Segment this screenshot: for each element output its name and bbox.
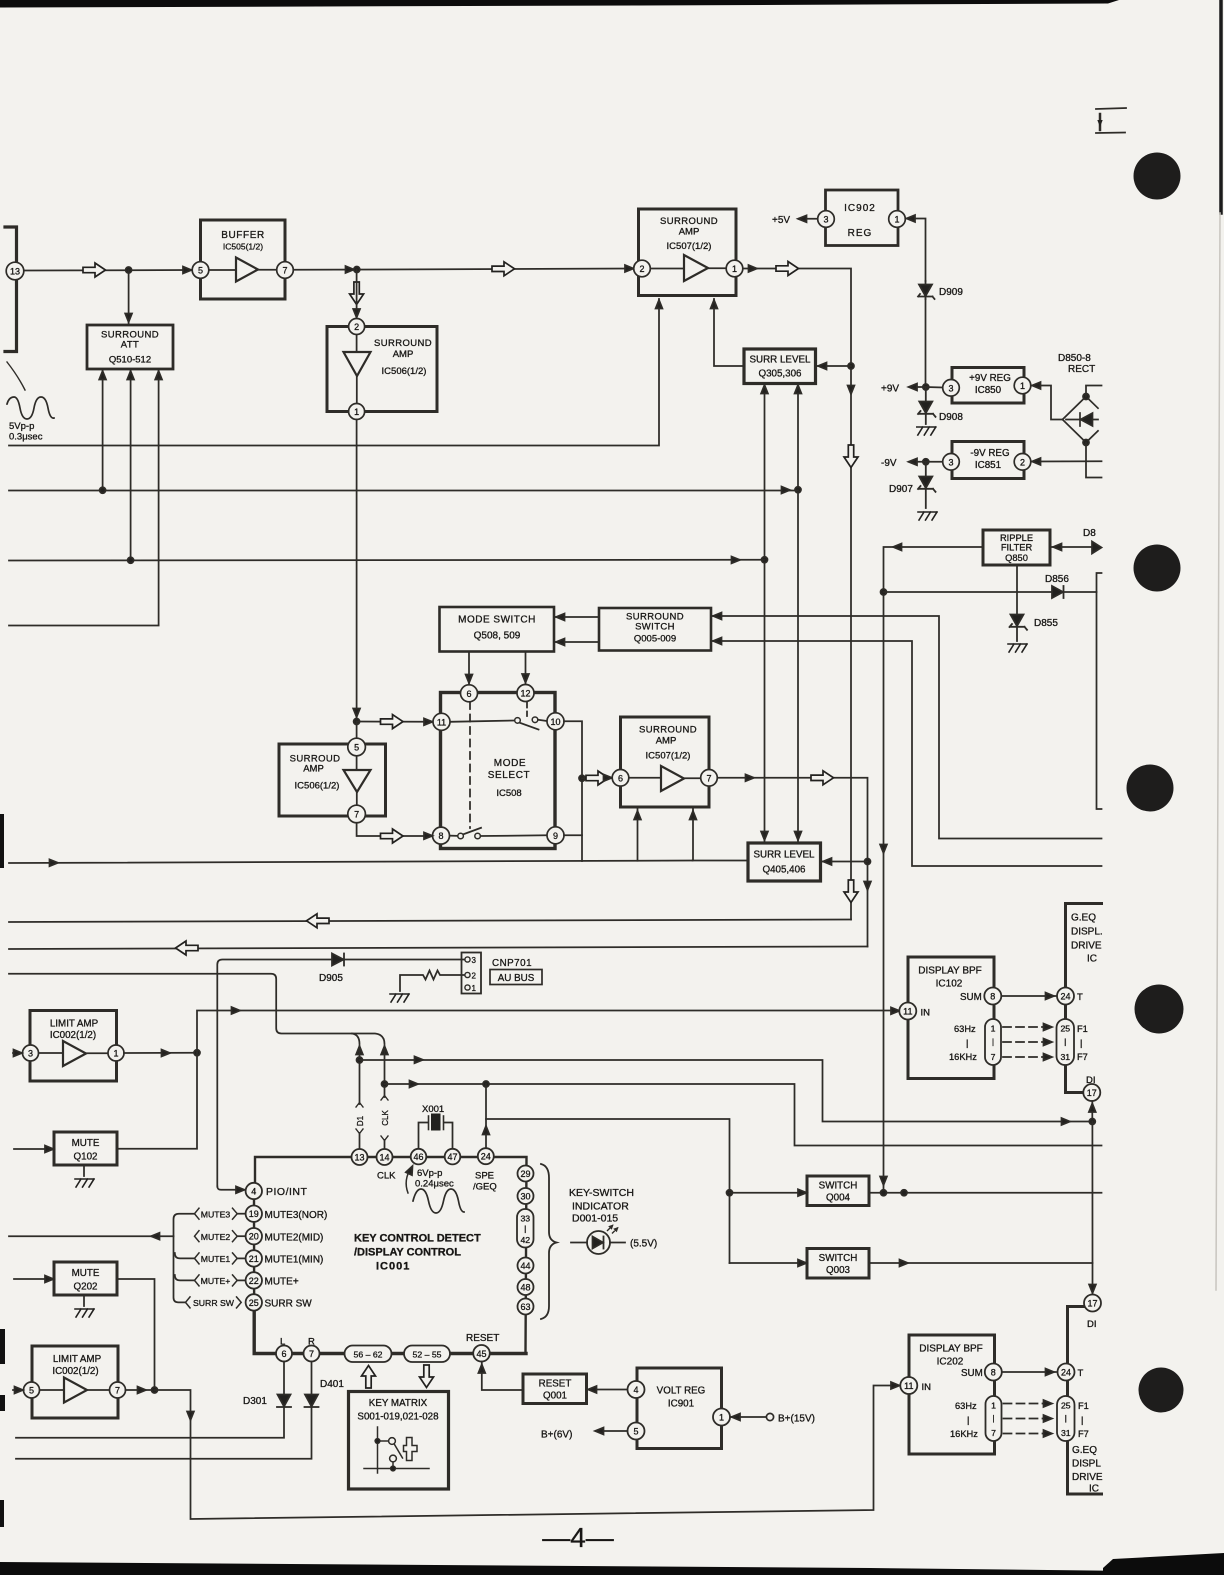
svg-text:(5.5V): (5.5V) — [630, 1239, 657, 1250]
svg-text:1: 1 — [732, 264, 737, 274]
wire: surround switch to mode switch upper — [555, 616, 599, 618]
svg-text:MUTE: MUTE — [72, 1268, 100, 1279]
reset Q001 box — [523, 1374, 587, 1404]
pin 29 — [518, 1166, 534, 1182]
ground below mute Q202 — [83, 1295, 85, 1306]
wire: IC851 pin2 from rectifier — [1031, 460, 1102, 462]
svg-text:Q850: Q850 — [1005, 553, 1028, 563]
angle label SURR SW — [186, 1297, 242, 1308]
svg-text:/DISPLAY CONTROL: /DISPLAY CONTROL — [354, 1247, 461, 1259]
svg-text:2: 2 — [354, 322, 359, 332]
svg-text:8: 8 — [438, 831, 443, 841]
wire: junction down into SURROUND ATT — [128, 270, 130, 323]
wire: input arrow to pin5 — [13, 1389, 23, 1391]
G.EQ display drive IC box 2 (cut at page edge) — [1068, 1307, 1102, 1495]
surr level box Q405,406 — [748, 843, 821, 881]
svg-text:5: 5 — [29, 1386, 34, 1396]
svg-text:D855: D855 — [1034, 618, 1058, 629]
pin 3 of IC850 — [943, 380, 960, 397]
svg-text:11: 11 — [437, 717, 446, 727]
wire: y1119 feed to switches — [486, 1119, 730, 1263]
svg-text:42: 42 — [520, 1235, 530, 1245]
pin 7 of buffer — [277, 262, 294, 279]
svg-text:24: 24 — [1061, 1368, 1071, 1378]
svg-text:SUM: SUM — [961, 1368, 983, 1379]
pin 1 of IC902 — [889, 211, 906, 228]
display BPF IC102 box — [908, 957, 994, 1079]
svg-text:Q405,406: Q405,406 — [762, 865, 806, 876]
ground on CNP pin2 — [390, 994, 409, 1002]
wire: IC507 right bottom pin down to SURR LEVEL input — [714, 299, 742, 366]
svg-text:FILTER: FILTER — [1001, 543, 1033, 553]
svg-text:0.3μsec: 0.3μsec — [9, 432, 43, 443]
svg-text:+5V: +5V — [772, 215, 790, 226]
svg-text:RIPPLE: RIPPLE — [1000, 533, 1033, 543]
dashed band wires 2 — [1004, 1404, 1046, 1434]
pin 63 — [518, 1299, 534, 1315]
svg-text:20: 20 — [249, 1232, 259, 1242]
svg-text:IC002(1/2): IC002(1/2) — [52, 1366, 98, 1377]
wire: surr level right input from x851 — [817, 365, 851, 367]
pin 22 MUTE+ — [246, 1272, 262, 1288]
svg-text:MUTE1: MUTE1 — [201, 1254, 231, 1264]
svg-text:17: 17 — [1087, 1088, 1097, 1098]
wire: IC850 pin1 to bridge — [1031, 386, 1063, 420]
rotated label (CLK) — [381, 1096, 388, 1141]
svg-text:+9V REG: +9V REG — [969, 373, 1011, 384]
wire: x729 node to Q004 — [730, 1192, 807, 1194]
pin 6 of mode select — [461, 685, 478, 702]
G.EQ display drive IC box 1 (cut at page edge) — [1066, 904, 1102, 1093]
wire: x582 node to IC507 lower pin6 — [582, 777, 612, 780]
angle label MUTE3 — [195, 1208, 238, 1219]
svg-text:—4—: —4— — [542, 1522, 614, 1553]
binder hole 1 — [1134, 153, 1181, 200]
svg-text:REG: REG — [848, 228, 873, 239]
svg-text:3: 3 — [948, 457, 953, 467]
svg-text:Q003: Q003 — [826, 1265, 851, 1276]
angle label MUTE2 — [195, 1231, 238, 1242]
svg-text:MUTE2: MUTE2 — [201, 1232, 231, 1242]
wire: mute Q202 right to x154.5 down to limit amp 2 node — [118, 1279, 155, 1390]
svg-text:SURROUND: SURROUND — [374, 338, 432, 349]
svg-text:IC507(1/2): IC507(1/2) — [667, 241, 712, 252]
bridge rectifier D850-853 — [1063, 397, 1099, 443]
svg-text:|: | — [1064, 1037, 1066, 1047]
pins 25-31 stadium of G.EQ 2 — [1057, 1396, 1075, 1441]
pin 1 of limit amp 1 — [108, 1045, 124, 1061]
svg-text:63: 63 — [520, 1302, 530, 1312]
svg-text:F1: F1 — [1078, 1401, 1089, 1411]
svg-text:DRIVE: DRIVE — [1071, 941, 1102, 952]
top right registration marker — [1096, 108, 1126, 133]
svg-text:D001-015: D001-015 — [572, 1213, 618, 1225]
wire: volt reg pin4 to reset Q001 — [587, 1389, 627, 1391]
svg-text:7: 7 — [991, 1428, 996, 1438]
pin 5 of surroud amp — [348, 738, 366, 756]
svg-text:IC002(1/2): IC002(1/2) — [50, 1030, 96, 1041]
pin 10 of mode select — [547, 713, 564, 730]
svg-text:INDICATOR: INDICATOR — [572, 1201, 629, 1213]
wire: ripple filter right to D8 stub — [1050, 546, 1092, 548]
pins 56-62 stadium — [345, 1346, 392, 1363]
svg-text:IC901: IC901 — [668, 1399, 694, 1410]
mute bundle bus — [174, 1214, 195, 1303]
pin 2 of IC851 — [1014, 454, 1031, 471]
-9V node — [923, 459, 929, 465]
ground below D855 — [1008, 644, 1027, 652]
diode D905 — [332, 954, 464, 966]
svg-text:T: T — [1078, 1368, 1084, 1379]
svg-text:1: 1 — [894, 215, 899, 225]
wire: D301 down then left to edge — [16, 1407, 284, 1438]
wire: x217 corner into pin 4 — [217, 1187, 244, 1190]
pin 19 MUTE3 — [246, 1206, 262, 1222]
pin 8 SUM of IC202 — [985, 1364, 1002, 1381]
junction on x851 at surr level — [848, 363, 854, 369]
wire: mute Q102 input from left edge — [14, 1148, 53, 1150]
pin 3 of limit amp 1 — [23, 1045, 39, 1061]
resistor on CNP pin2 — [400, 971, 465, 992]
switch Q003 box — [807, 1249, 869, 1279]
svg-text:16KHz: 16KHz — [950, 1429, 978, 1439]
diode D856 — [884, 586, 1097, 598]
svg-text:3: 3 — [823, 215, 828, 225]
+9V REG IC850 box — [952, 368, 1024, 404]
svg-text:D1: D1 — [356, 1115, 365, 1126]
svg-text:F7: F7 — [1078, 1429, 1089, 1439]
svg-text:48: 48 — [520, 1283, 530, 1293]
svg-text:Q004: Q004 — [826, 1193, 851, 1204]
wire: ATT pin3 up-arrow from y625 corner — [158, 370, 160, 625]
svg-text:IC: IC — [1087, 954, 1097, 965]
pin 7 of IC507 lower — [701, 770, 718, 787]
pin 25 SURR SW — [246, 1294, 262, 1310]
svg-text:IC506(1/2): IC506(1/2) — [382, 366, 427, 377]
pin 1 of IC506 upper — [349, 404, 365, 420]
svg-text:ATT: ATT — [121, 340, 139, 351]
wire: limit amp 1 out to junction — [124, 1052, 197, 1054]
svg-text:25: 25 — [1061, 1401, 1071, 1411]
hollow arrow down from 52-55 — [420, 1365, 434, 1388]
pins 52-55 stadium — [404, 1346, 450, 1363]
svg-text:10: 10 — [550, 717, 560, 727]
svg-text:IN: IN — [921, 1008, 931, 1019]
IC506 upper triangle (down) — [344, 352, 371, 376]
left edge black marks — [0, 814, 4, 868]
angle label MUTE1 — [195, 1253, 238, 1264]
switch contact upper (11-10) — [450, 721, 514, 722]
svg-text:8: 8 — [990, 992, 995, 1002]
svg-text:11: 11 — [904, 1381, 913, 1391]
svg-text:1: 1 — [719, 1413, 724, 1423]
binder hole 3 — [1127, 765, 1174, 812]
svg-text:F7: F7 — [1077, 1052, 1088, 1062]
svg-text:2: 2 — [472, 972, 477, 981]
svg-text:Q102: Q102 — [74, 1152, 98, 1163]
svg-text:IC506(1/2): IC506(1/2) — [295, 781, 340, 792]
sine wave 5Vp-p annotation — [7, 397, 54, 419]
pin 4 PIO/INT — [246, 1183, 262, 1199]
svg-text:MUTE+: MUTE+ — [201, 1276, 231, 1286]
limit amp IC002(1/2) lower box — [32, 1346, 118, 1418]
svg-text:|: | — [992, 1413, 994, 1423]
wire: mute Q202 input from left edge — [14, 1278, 53, 1280]
volt reg IC901 box — [637, 1368, 722, 1449]
surround switch box Q005-009 — [599, 608, 711, 651]
surround amp IC506(1/2) upper box — [327, 327, 437, 412]
wire: long line y862 to left edge — [9, 861, 693, 864]
svg-text:MUTE1(MIN): MUTE1(MIN) — [265, 1255, 324, 1266]
wire: D1 line down to pin13 — [359, 1046, 361, 1104]
svg-text:SURR LEVEL: SURR LEVEL — [754, 850, 816, 861]
-9V REG IC851 box — [952, 442, 1024, 479]
svg-text:SWITCH: SWITCH — [819, 1253, 858, 1264]
wire: surround switch upper input loop via x939 — [711, 616, 1102, 839]
svg-text:SPE: SPE — [475, 1171, 494, 1182]
mute Q202 box — [54, 1262, 117, 1295]
svg-text:SWITCH: SWITCH — [819, 1181, 858, 1192]
svg-text:29: 29 — [520, 1169, 530, 1179]
svg-text:14: 14 — [379, 1153, 389, 1163]
svg-text:25: 25 — [249, 1298, 259, 1308]
svg-text:DI: DI — [1087, 1319, 1097, 1330]
wire: pin17 down to y1121 node — [1091, 1101, 1093, 1122]
svg-text:7: 7 — [309, 1349, 314, 1359]
svg-text:D907: D907 — [889, 484, 913, 495]
svg-text:|: | — [1065, 1413, 1067, 1423]
svg-text:44: 44 — [520, 1261, 530, 1271]
wire: ripple filter bottom through D855 — [1016, 565, 1018, 614]
wire: junction down to mute Q102 — [118, 1053, 198, 1149]
svg-text:47: 47 — [447, 1152, 457, 1162]
svg-text:MUTE3: MUTE3 — [201, 1209, 231, 1219]
wire: node to +9V arrow — [910, 386, 926, 388]
svg-text:1: 1 — [472, 984, 477, 993]
svg-text:D908: D908 — [939, 412, 963, 423]
svg-text:CLK: CLK — [377, 1171, 396, 1182]
pin 7 of surroud amp — [348, 805, 366, 823]
svg-text:Q001: Q001 — [543, 1391, 567, 1402]
wire: Q004 output right to page edge — [869, 1192, 1102, 1194]
wire: mode switch to pin6 — [468, 652, 470, 685]
diode D909 — [918, 281, 935, 299]
svg-text:|: | — [992, 1037, 994, 1047]
wire: junction right to mode select pin 11 — [357, 721, 432, 723]
svg-text:2: 2 — [1020, 457, 1025, 467]
svg-text:MUTE3(NOR): MUTE3(NOR) — [265, 1210, 328, 1221]
angle label MUTE+ — [195, 1275, 238, 1286]
svg-text:IC508: IC508 — [496, 788, 521, 799]
svg-text:AMP: AMP — [656, 736, 677, 747]
svg-text:2: 2 — [639, 264, 644, 274]
svg-text:63Hz: 63Hz — [954, 1024, 976, 1034]
wire: SUM to G.EQ pin24 — [1002, 995, 1057, 997]
wire: buffer out to IC507 input — [294, 269, 634, 270]
pin 8 SUM of IC102 — [984, 988, 1001, 1005]
svg-text:MODE SWITCH: MODE SWITCH — [458, 615, 536, 626]
dashed select line from pin12 — [526, 702, 528, 717]
wire: D401 down then left to edge — [16, 1407, 312, 1459]
svg-text:3: 3 — [28, 1049, 33, 1059]
svg-text:PIO/INT: PIO/INT — [266, 1186, 308, 1198]
buffer amp triangle — [236, 258, 258, 282]
wire: mode switch to pin12 — [525, 652, 527, 684]
svg-text:AMP: AMP — [679, 227, 700, 238]
svg-text:DISPLAY BPF: DISPLAY BPF — [919, 1344, 983, 1355]
svg-text:G.EQ: G.EQ — [1071, 913, 1096, 924]
pin 13 — [352, 1149, 368, 1165]
svg-text:+9V: +9V — [881, 384, 899, 395]
pin 7 of limit amp 2 — [110, 1382, 126, 1398]
svg-text:7: 7 — [991, 1052, 996, 1062]
svg-text:6: 6 — [466, 689, 471, 699]
top black bar — [0, 0, 1119, 8]
svg-text:RESET: RESET — [466, 1333, 499, 1344]
svg-text:IC505(1/2): IC505(1/2) — [223, 242, 263, 252]
svg-text:24: 24 — [1060, 992, 1070, 1002]
display BPF IC202 box — [909, 1335, 995, 1454]
pin 21 MUTE1 — [246, 1250, 262, 1266]
pin 11 IN of IC102 — [899, 1003, 916, 1020]
svg-text:IN: IN — [922, 1382, 932, 1393]
wire: bridge top corner to page edge — [1086, 386, 1102, 397]
svg-text:AU BUS: AU BUS — [498, 973, 535, 984]
svg-text:0.24μsec: 0.24μsec — [415, 1179, 454, 1190]
svg-text:SELECT: SELECT — [488, 770, 531, 781]
right bus bracket at page edge — [1097, 573, 1102, 809]
wire: y1084 route to page edge via x794 — [385, 1084, 1102, 1146]
bottom black strip — [0, 1562, 1224, 1575]
svg-text:|: | — [1080, 1038, 1082, 1048]
svg-text:X001: X001 — [422, 1104, 444, 1115]
svg-text:DISPLAY BPF: DISPLAY BPF — [918, 966, 982, 977]
svg-text:T: T — [1077, 992, 1083, 1003]
wire: junction down to surroud amp pin5 — [356, 722, 358, 739]
svg-text:Q305,306: Q305,306 — [758, 369, 802, 380]
svg-text:IC202: IC202 — [937, 1357, 964, 1368]
svg-text:|: | — [966, 1038, 968, 1048]
svg-text:IC850: IC850 — [975, 385, 1002, 396]
svg-text:B+(6V): B+(6V) — [541, 1430, 572, 1441]
pin 24 T of G.EQ 1 — [1057, 988, 1074, 1005]
svg-text:1: 1 — [354, 407, 359, 417]
pin 30 — [518, 1188, 534, 1204]
svg-text:SURROUND: SURROUND — [639, 725, 697, 736]
limit amp 1 triangle — [63, 1041, 86, 1066]
svg-text:|: | — [967, 1415, 969, 1425]
svg-text:4: 4 — [633, 1385, 638, 1395]
svg-text:-9V REG: -9V REG — [970, 448, 1009, 459]
wire: surround switch lower input loop via x912 — [711, 641, 1102, 866]
wire: ATT pin2 up-arrow from y559 line — [130, 370, 132, 560]
svg-text:31: 31 — [1060, 1052, 1070, 1062]
svg-text:16KHz: 16KHz — [949, 1052, 977, 1062]
zener D855 — [1010, 615, 1028, 642]
pin 3 of IC902 — [818, 211, 835, 228]
wire: IC902 pin3 to +5V — [799, 218, 818, 220]
pins 1-7 stadium of IC202 — [986, 1396, 1002, 1441]
svg-text:KEY CONTROL DETECT: KEY CONTROL DETECT — [354, 1233, 481, 1245]
IC506 lower triangle (down) — [344, 770, 371, 792]
wire: limit amp 2 output junction — [126, 1389, 155, 1391]
svg-text:Q510-512: Q510-512 — [109, 355, 151, 366]
pins 33-42 stadium — [517, 1209, 534, 1248]
svg-text:45: 45 — [476, 1349, 486, 1359]
svg-text:SUM: SUM — [960, 992, 982, 1003]
wire: node down to Q003 line — [1091, 1122, 1093, 1264]
pin 24 — [478, 1148, 494, 1164]
svg-text:RESET: RESET — [539, 1379, 572, 1390]
wire: long line y490 — [9, 490, 798, 492]
svg-text:RECT: RECT — [1068, 364, 1095, 375]
6Vp-p annotation at pin46 — [406, 1167, 411, 1193]
wire: IC506 pin1 down long vertical to mode select region — [356, 420, 358, 722]
pin 11 IN of IC202 — [900, 1377, 917, 1394]
wire: ripple filter left to x883 rail corner — [884, 547, 984, 1193]
svg-text:BUFFER: BUFFER — [221, 230, 265, 241]
wire: IC507 lower output right, corner down x867.5 — [718, 778, 868, 947]
hollow arrow down to IC506 — [350, 282, 364, 305]
key matrix switch symbol — [364, 1427, 429, 1473]
pin 12 of mode select — [517, 685, 534, 702]
svg-text:1: 1 — [1020, 381, 1025, 391]
pin 5 of limit amp 2 — [24, 1382, 40, 1398]
wire: surr level bottom pin A long vertical to Q405 — [764, 384, 766, 842]
svg-text:52 – 55: 52 – 55 — [413, 1349, 442, 1359]
pin 44 — [518, 1258, 534, 1274]
svg-text:D850-8: D850-8 — [1058, 353, 1091, 364]
ground below D908 — [917, 427, 936, 435]
IC001 ring outline — [254, 1157, 527, 1354]
zener D908 — [918, 387, 936, 424]
pin 48 — [518, 1279, 534, 1295]
svg-text:SURR LEVEL: SURR LEVEL — [750, 355, 812, 366]
svg-text:5: 5 — [198, 266, 203, 276]
wire: y1060 route to display bpf region — [360, 1060, 1090, 1122]
wire: IC902 pin1 from D909 rail — [906, 219, 926, 282]
wire: surr level bottom pin B long vertical to Q405 — [797, 384, 799, 842]
svg-text:IC507(1/2): IC507(1/2) — [646, 751, 691, 762]
dashed band wires 1 — [1003, 1027, 1045, 1057]
zener D907 — [918, 462, 936, 508]
ground below mute Q102 — [83, 1165, 85, 1176]
svg-text:33: 33 — [520, 1214, 530, 1224]
svg-text:17: 17 — [1087, 1299, 1097, 1309]
mute Q102 box — [54, 1132, 117, 1165]
svg-text:-9V: -9V — [881, 458, 897, 469]
svg-text:LIMIT AMP: LIMIT AMP — [50, 1019, 99, 1030]
svg-text:AMP: AMP — [303, 764, 324, 775]
LED indicator D001-015 — [571, 1242, 587, 1244]
mode switch box Q508,509 — [440, 607, 555, 652]
pin 20 MUTE2 — [246, 1228, 262, 1244]
svg-text:SURR SW: SURR SW — [193, 1298, 235, 1308]
pins 25-31 stadium of G.EQ 1 — [1057, 1019, 1075, 1065]
pin 6 bottom — [276, 1346, 292, 1362]
svg-text:1: 1 — [991, 1024, 996, 1034]
pin 17 DI of G.EQ 2 — [1084, 1295, 1101, 1312]
svg-text:D905: D905 — [319, 973, 343, 984]
limit amp IC002(1/2) upper box — [30, 1011, 117, 1082]
binder hole 5 — [1139, 1368, 1184, 1413]
svg-text:Q508, 509: Q508, 509 — [474, 631, 521, 642]
switch Q004 box — [807, 1176, 869, 1206]
svg-text:5Vp-p: 5Vp-p — [9, 421, 34, 432]
svg-text:Q005-009: Q005-009 — [634, 634, 676, 645]
svg-text:3: 3 — [472, 956, 477, 965]
wire: IC507 out right, corner down at x851 — [743, 269, 851, 920]
